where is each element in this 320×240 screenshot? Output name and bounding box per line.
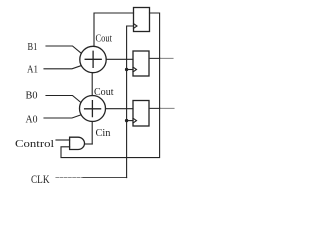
svg-text:A0: A0 [26,115,38,126]
clock triangle FF3 [133,118,137,123]
svg-text:B0: B0 [26,91,38,102]
wire FA1 Cout to FF1 D input [94,13,134,46]
wire FF3 Q output S0 [149,107,160,109]
wire Control to AND gate input [56,139,70,141]
wire FA0 Cin from AND gate output [91,121,93,144]
wire B0 input [46,96,81,103]
wire clock branch to FF3 [127,120,133,122]
junction clock FF3 [125,119,128,122]
svg-text:Cin: Cin [96,128,111,139]
wire FA0 sum to FF3 D input [106,108,134,110]
svg-text:Cout: Cout [96,34,113,45]
D flip-flop FF2 [133,51,149,76]
svg-text:B1: B1 [28,42,38,53]
svg-text:A1: A1 [27,65,38,76]
AND gate G1 [70,137,85,149]
wire FA0 Cout to FA1 Cin [91,73,93,96]
wire AND gate output [85,143,92,145]
full adder FA1 [80,46,106,72]
D flip-flop FF1 [134,8,150,32]
svg-text:Cout: Cout [94,87,114,98]
clock triangle FF1 [134,24,138,29]
clock triangle FF2 [133,67,137,72]
wire A0 input [44,115,81,118]
svg-text:CLK: CLK [31,174,50,186]
full adder FA0 [80,96,106,122]
wire FF2 Q output S1 [149,57,160,59]
wire clock branch to FF2 [127,69,133,71]
wire B1 input [46,46,81,53]
D flip-flop FF3 [133,101,149,127]
wire FF1 Q feedback to AND gate input [61,13,160,158]
wire CLK input [56,177,83,179]
wire clock distribution vertical [127,26,134,178]
wire FA1 sum to FF2 D input [106,58,133,60]
svg-text:Control: Control [15,139,54,150]
junction clock FF2 [125,68,128,71]
wire A1 input [44,66,81,69]
